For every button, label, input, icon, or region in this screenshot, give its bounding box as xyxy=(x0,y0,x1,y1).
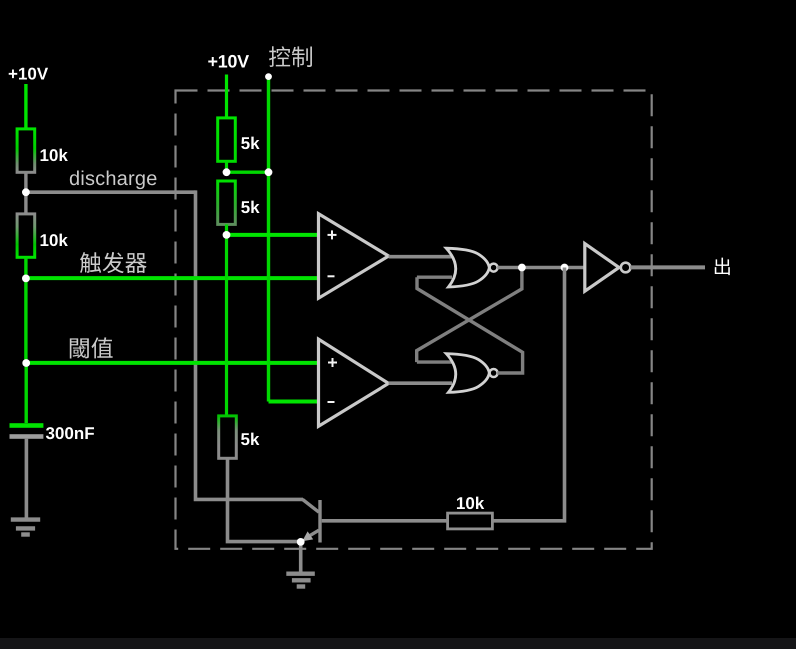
wire control to comparator B minus input xyxy=(269,400,319,404)
value label R5 5k xyxy=(241,433,259,445)
wire control vertical xyxy=(267,77,270,402)
capacitor C1 top plate xyxy=(10,423,44,428)
resistor R5 5k xyxy=(219,416,237,458)
value label R1 10k xyxy=(41,149,68,161)
wire R3 to control tap xyxy=(225,161,228,172)
wire threshold node to C1 xyxy=(25,363,28,423)
value label C1 300nF xyxy=(46,427,94,439)
ground (below transistor) xyxy=(286,574,315,587)
+10V supply label (middle) xyxy=(208,55,249,68)
wire latch output down to base resistor xyxy=(493,268,565,521)
wire threshold line xyxy=(26,361,319,365)
wire discharge node to R2 xyxy=(24,192,27,214)
resistor R4 5k xyxy=(218,181,236,224)
NOR gate G2 xyxy=(446,354,489,393)
resistor R1 10k xyxy=(17,129,35,172)
wire latch feedback into G2 upper input xyxy=(417,360,452,363)
wire comparator B output to gate G2 xyxy=(389,381,452,385)
resistor R2 10k xyxy=(17,214,35,257)
wire R1 to discharge node xyxy=(24,172,27,192)
value label R3 5k xyxy=(241,137,259,149)
wire R4 to divider node xyxy=(225,224,228,235)
wire G1 output cross-coupled to G2 input xyxy=(417,268,522,363)
wire trigger line xyxy=(26,276,319,280)
ground (left, below C1) xyxy=(11,520,40,535)
+10V supply label (left) xyxy=(9,68,48,80)
label trigger 触发器 xyxy=(80,252,147,273)
inverter U3 xyxy=(585,244,619,292)
NOR gate G2 output bubble xyxy=(490,369,498,377)
node threshold junction xyxy=(22,359,30,367)
node discharge junction xyxy=(22,188,30,196)
bottom status bar xyxy=(0,638,796,649)
NOR gate G1 output bubble xyxy=(490,264,498,272)
value label R6 10k xyxy=(457,497,484,509)
node emitter ground junction xyxy=(297,538,305,546)
wire divider node down to R5 xyxy=(225,235,228,416)
label output 出 xyxy=(715,258,730,275)
op-amp comparator B xyxy=(319,339,389,426)
wire +10V mid rail to R3 xyxy=(225,75,228,118)
value label R4 5k xyxy=(241,201,259,213)
wire latch feedback into G1 lower input xyxy=(417,276,452,279)
node between R3 R4 xyxy=(223,168,231,176)
wire base resistor to transistor base xyxy=(322,519,448,523)
capacitor C1 bottom plate xyxy=(10,434,44,439)
wire divider to comparator A plus input xyxy=(227,233,319,237)
inverter U3 bubble xyxy=(621,263,631,273)
label control 控制 xyxy=(269,46,312,67)
value label R2 10k xyxy=(41,234,68,246)
resistor R6 10k (base) xyxy=(448,513,493,529)
wire G2 output cross-coupled to G1 input xyxy=(417,277,523,373)
node control pin xyxy=(265,73,272,80)
label discharge xyxy=(70,171,157,190)
wire G1 output to inverter xyxy=(497,266,584,270)
wire inverter output xyxy=(630,265,705,269)
wire discharge down to transistor collector xyxy=(196,190,304,499)
wire C1 to ground xyxy=(25,439,29,518)
transistor Q1 emitter lead xyxy=(306,530,319,538)
wire R5 to transistor emitter node xyxy=(228,458,301,541)
transistor Q1 emitter arrow xyxy=(302,531,313,541)
transistor Q1 base bar xyxy=(318,500,321,543)
wire trigger to threshold node xyxy=(24,279,27,363)
dashed IC boundary box xyxy=(176,91,652,549)
transistor Q1 collector lead xyxy=(303,499,319,512)
node output branch xyxy=(561,264,569,272)
NOR gate G1 xyxy=(446,248,489,287)
op-amp comparator A xyxy=(319,214,389,299)
resistor R3 5k xyxy=(218,118,236,161)
node trigger junction xyxy=(22,275,30,283)
node between R4 R5 xyxy=(223,231,231,239)
node Q output of latch xyxy=(518,264,526,272)
wire discharge horizontal xyxy=(26,190,196,194)
wire control tap horizontal xyxy=(227,170,269,173)
wire R2 to trigger node xyxy=(24,257,27,278)
wire comparator A output to gate G1 xyxy=(389,255,452,259)
wire emitter node to ground xyxy=(299,542,303,574)
label threshold 阈值 xyxy=(70,337,113,358)
wire +10V rail to R1 xyxy=(24,84,27,129)
node control tap xyxy=(265,168,273,176)
